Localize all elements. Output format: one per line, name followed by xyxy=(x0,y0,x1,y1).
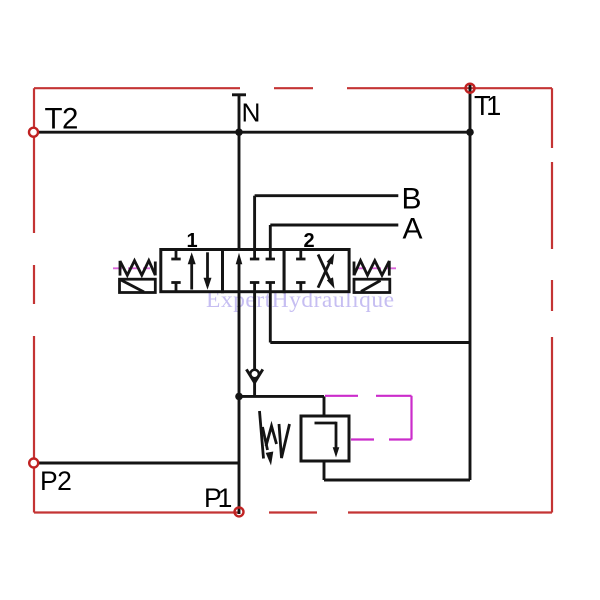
svg-text:T2: T2 xyxy=(45,102,78,135)
valve position 2 blocked port top xyxy=(296,250,305,260)
pilot line hint at left spring (magenta dashed) xyxy=(113,267,150,269)
svg-text:P1: P1 xyxy=(204,483,232,513)
label A xyxy=(403,212,423,245)
svg-text:T1: T1 xyxy=(474,90,500,121)
spring right (valve centering) xyxy=(354,261,389,276)
wire valve bottom port to T1 line xyxy=(270,292,470,343)
wire P2 line xyxy=(38,462,239,465)
label B xyxy=(402,182,422,215)
relief valve RV1 adjustable spring with arrow xyxy=(260,411,290,466)
wire T2 to T1 junction (tank line) xyxy=(38,131,470,134)
junction dot at P line and relief branch xyxy=(235,393,243,401)
valve position 1 up arrow xyxy=(188,252,196,289)
label P2 xyxy=(40,466,71,496)
wire relief valve outlet to T1 line xyxy=(324,461,470,480)
watermark ExpertHydraulique xyxy=(206,287,395,313)
pilot line hint at right spring (magenta dashed) xyxy=(357,267,396,269)
svg-text:B: B xyxy=(402,182,422,215)
wire port A line xyxy=(270,225,398,250)
svg-text:P2: P2 xyxy=(40,466,71,496)
wire N vertical line (N to P1) xyxy=(232,95,246,514)
svg-text:A: A xyxy=(403,212,423,245)
directional control valve V1 body (3-position) xyxy=(161,250,349,292)
valve position 1 blocked port bottom xyxy=(171,283,180,292)
label T2 xyxy=(45,102,78,135)
valve center blocked port bottom A xyxy=(266,283,275,292)
svg-text:2: 2 xyxy=(303,230,314,252)
spring left (valve centering) xyxy=(120,261,155,276)
valve position label 2 xyxy=(303,230,314,252)
valve center blocked port top A xyxy=(266,250,275,260)
enclosure boundary (red dashed subplate frame) xyxy=(34,88,552,512)
port T1 (red circle) xyxy=(466,84,475,93)
relief valve RV1 flow arrow xyxy=(315,422,340,458)
svg-text:1: 1 xyxy=(186,230,197,252)
check valve CV1 xyxy=(246,369,262,382)
wire valve bottom port to check valve xyxy=(253,292,256,397)
valve position 2 blocked port bottom xyxy=(296,283,305,292)
wire port B line xyxy=(255,196,399,250)
port T2 (red circle) xyxy=(29,128,38,137)
valve position label 1 xyxy=(186,230,197,252)
valve position 1 blocked port top xyxy=(171,250,180,260)
pilot line (magenta dashed) relief valve vent xyxy=(325,396,412,440)
valve position 2 crossed arrow rising xyxy=(318,253,334,287)
label T1 xyxy=(474,90,500,121)
junction dot at T1 and tank line xyxy=(466,128,474,136)
valve center position through arrow (N to P) xyxy=(236,253,243,292)
solenoid right xyxy=(354,279,390,292)
port P2 (red circle) xyxy=(29,459,38,468)
relief valve RV1 body xyxy=(301,416,349,461)
solenoid left xyxy=(120,279,156,292)
valve position 1 down arrow xyxy=(204,252,212,289)
valve center blocked port top B xyxy=(250,250,259,260)
junction dot at N and tank line xyxy=(235,128,243,136)
wire T1 vertical line xyxy=(469,85,472,481)
svg-text:N: N xyxy=(242,98,261,128)
valve position 2 crossed arrow falling xyxy=(318,255,334,289)
label P1 xyxy=(204,483,232,513)
label N xyxy=(242,98,261,128)
port P1 (red circle) xyxy=(235,507,244,516)
wire junction to relief valve inlet xyxy=(239,396,324,416)
valve center blocked port bottom B xyxy=(250,283,259,292)
